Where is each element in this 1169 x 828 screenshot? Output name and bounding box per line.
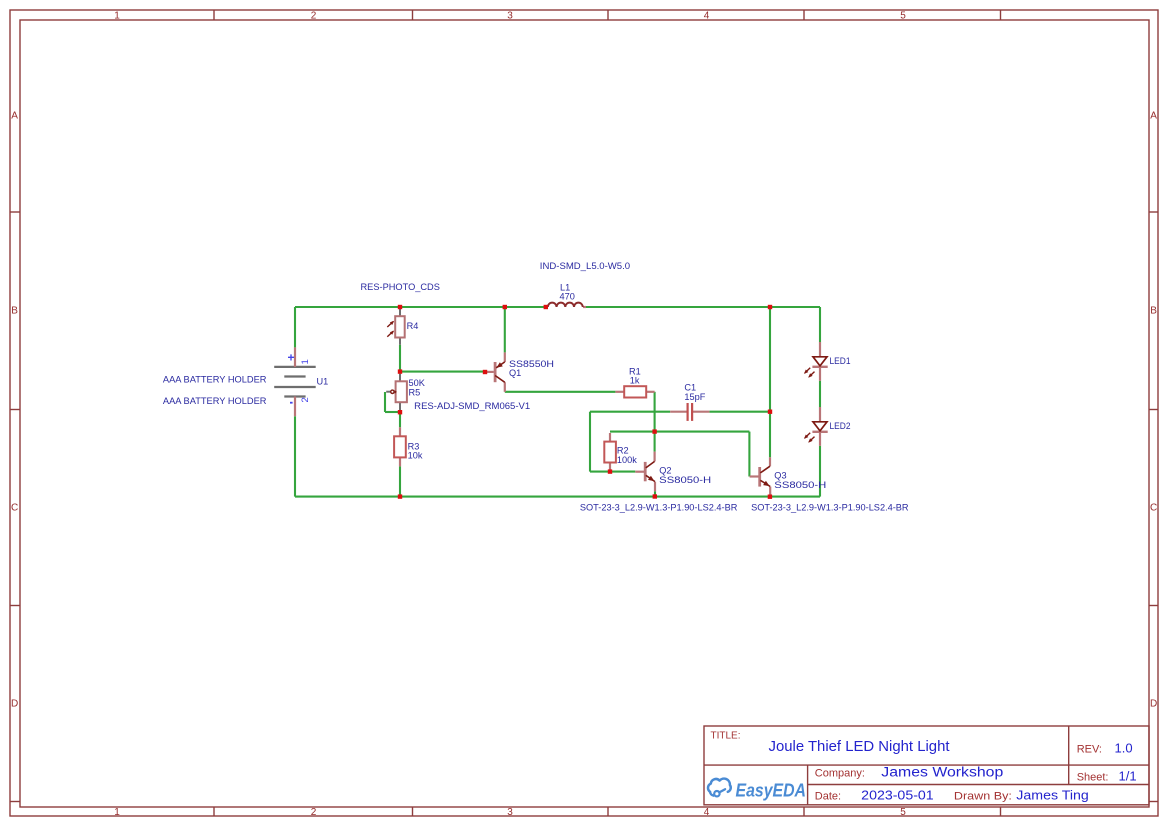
svg-text:Joule Thief LED Night Light: Joule Thief LED Night Light [769, 738, 951, 755]
svg-text:C: C [11, 503, 18, 514]
svg-text:R5: R5 [409, 388, 421, 398]
svg-text:5: 5 [900, 10, 906, 21]
svg-text:1k: 1k [630, 376, 640, 386]
svg-text:R2: R2 [617, 446, 629, 456]
svg-text:2: 2 [300, 397, 311, 402]
svg-text:B: B [1150, 306, 1157, 317]
svg-text:Drawn By:: Drawn By: [954, 791, 1012, 803]
svg-text:EasyEDA: EasyEDA [736, 780, 807, 800]
svg-text:2: 2 [311, 807, 317, 818]
svg-text:Company:: Company: [815, 767, 865, 779]
svg-text:5: 5 [900, 807, 906, 818]
svg-text:3: 3 [507, 10, 513, 21]
svg-text:REV:: REV: [1077, 744, 1102, 756]
svg-text:3: 3 [507, 807, 513, 818]
svg-text:D: D [1150, 699, 1157, 710]
svg-text:100k: 100k [617, 455, 637, 465]
svg-text:Sheet:: Sheet: [1077, 772, 1109, 784]
svg-text:LED2: LED2 [830, 421, 851, 431]
svg-text:2023-05-01: 2023-05-01 [861, 788, 934, 803]
svg-text:SS8050-H: SS8050-H [659, 475, 711, 485]
svg-text:Q2: Q2 [659, 466, 671, 476]
svg-text:TITLE:: TITLE: [711, 731, 741, 742]
svg-text:James Ting: James Ting [1016, 788, 1089, 803]
svg-text:470: 470 [560, 292, 575, 302]
svg-text:4: 4 [704, 807, 710, 818]
svg-text:4: 4 [704, 10, 710, 21]
svg-text:Q1: Q1 [509, 368, 521, 378]
svg-text:AAA BATTERY HOLDER: AAA BATTERY HOLDER [163, 375, 267, 385]
svg-text:B: B [11, 306, 18, 317]
svg-text:D: D [11, 699, 18, 710]
svg-text:10k: 10k [408, 451, 423, 461]
svg-text:R4: R4 [407, 321, 419, 331]
svg-text:1.0: 1.0 [1115, 741, 1133, 756]
svg-text:2: 2 [311, 10, 317, 21]
svg-text:1/1: 1/1 [1119, 769, 1137, 784]
svg-text:IND-SMD_L5.0-W5.0: IND-SMD_L5.0-W5.0 [540, 261, 630, 271]
svg-text:U1: U1 [317, 376, 329, 386]
svg-text:C: C [1150, 503, 1157, 514]
svg-text:+: + [287, 351, 294, 365]
svg-text:RES-PHOTO_CDS: RES-PHOTO_CDS [361, 282, 440, 292]
svg-text:1: 1 [300, 359, 311, 364]
svg-text:C1: C1 [684, 383, 696, 393]
svg-text:SOT-23-3_L2.9-W1.3-P1.90-LS2.4: SOT-23-3_L2.9-W1.3-P1.90-LS2.4-BR [580, 502, 738, 512]
svg-text:AAA BATTERY HOLDER: AAA BATTERY HOLDER [163, 396, 267, 406]
svg-text:A: A [11, 111, 18, 122]
svg-text:SOT-23-3_L2.9-W1.3-P1.90-LS2.4: SOT-23-3_L2.9-W1.3-P1.90-LS2.4-BR [751, 502, 909, 512]
svg-text:James Workshop: James Workshop [881, 764, 1003, 779]
svg-text:SS8050-H: SS8050-H [774, 480, 826, 490]
svg-text:1: 1 [114, 807, 120, 818]
svg-text:LED1: LED1 [830, 356, 851, 366]
svg-text:RES-ADJ-SMD_RM065-V1: RES-ADJ-SMD_RM065-V1 [414, 401, 530, 411]
svg-text:Q3: Q3 [774, 471, 786, 481]
svg-text:Date:: Date: [815, 791, 841, 803]
svg-text:A: A [1150, 111, 1157, 122]
svg-text:50K: 50K [409, 378, 426, 388]
svg-text:1: 1 [114, 10, 120, 21]
svg-text:15pF: 15pF [684, 392, 705, 402]
